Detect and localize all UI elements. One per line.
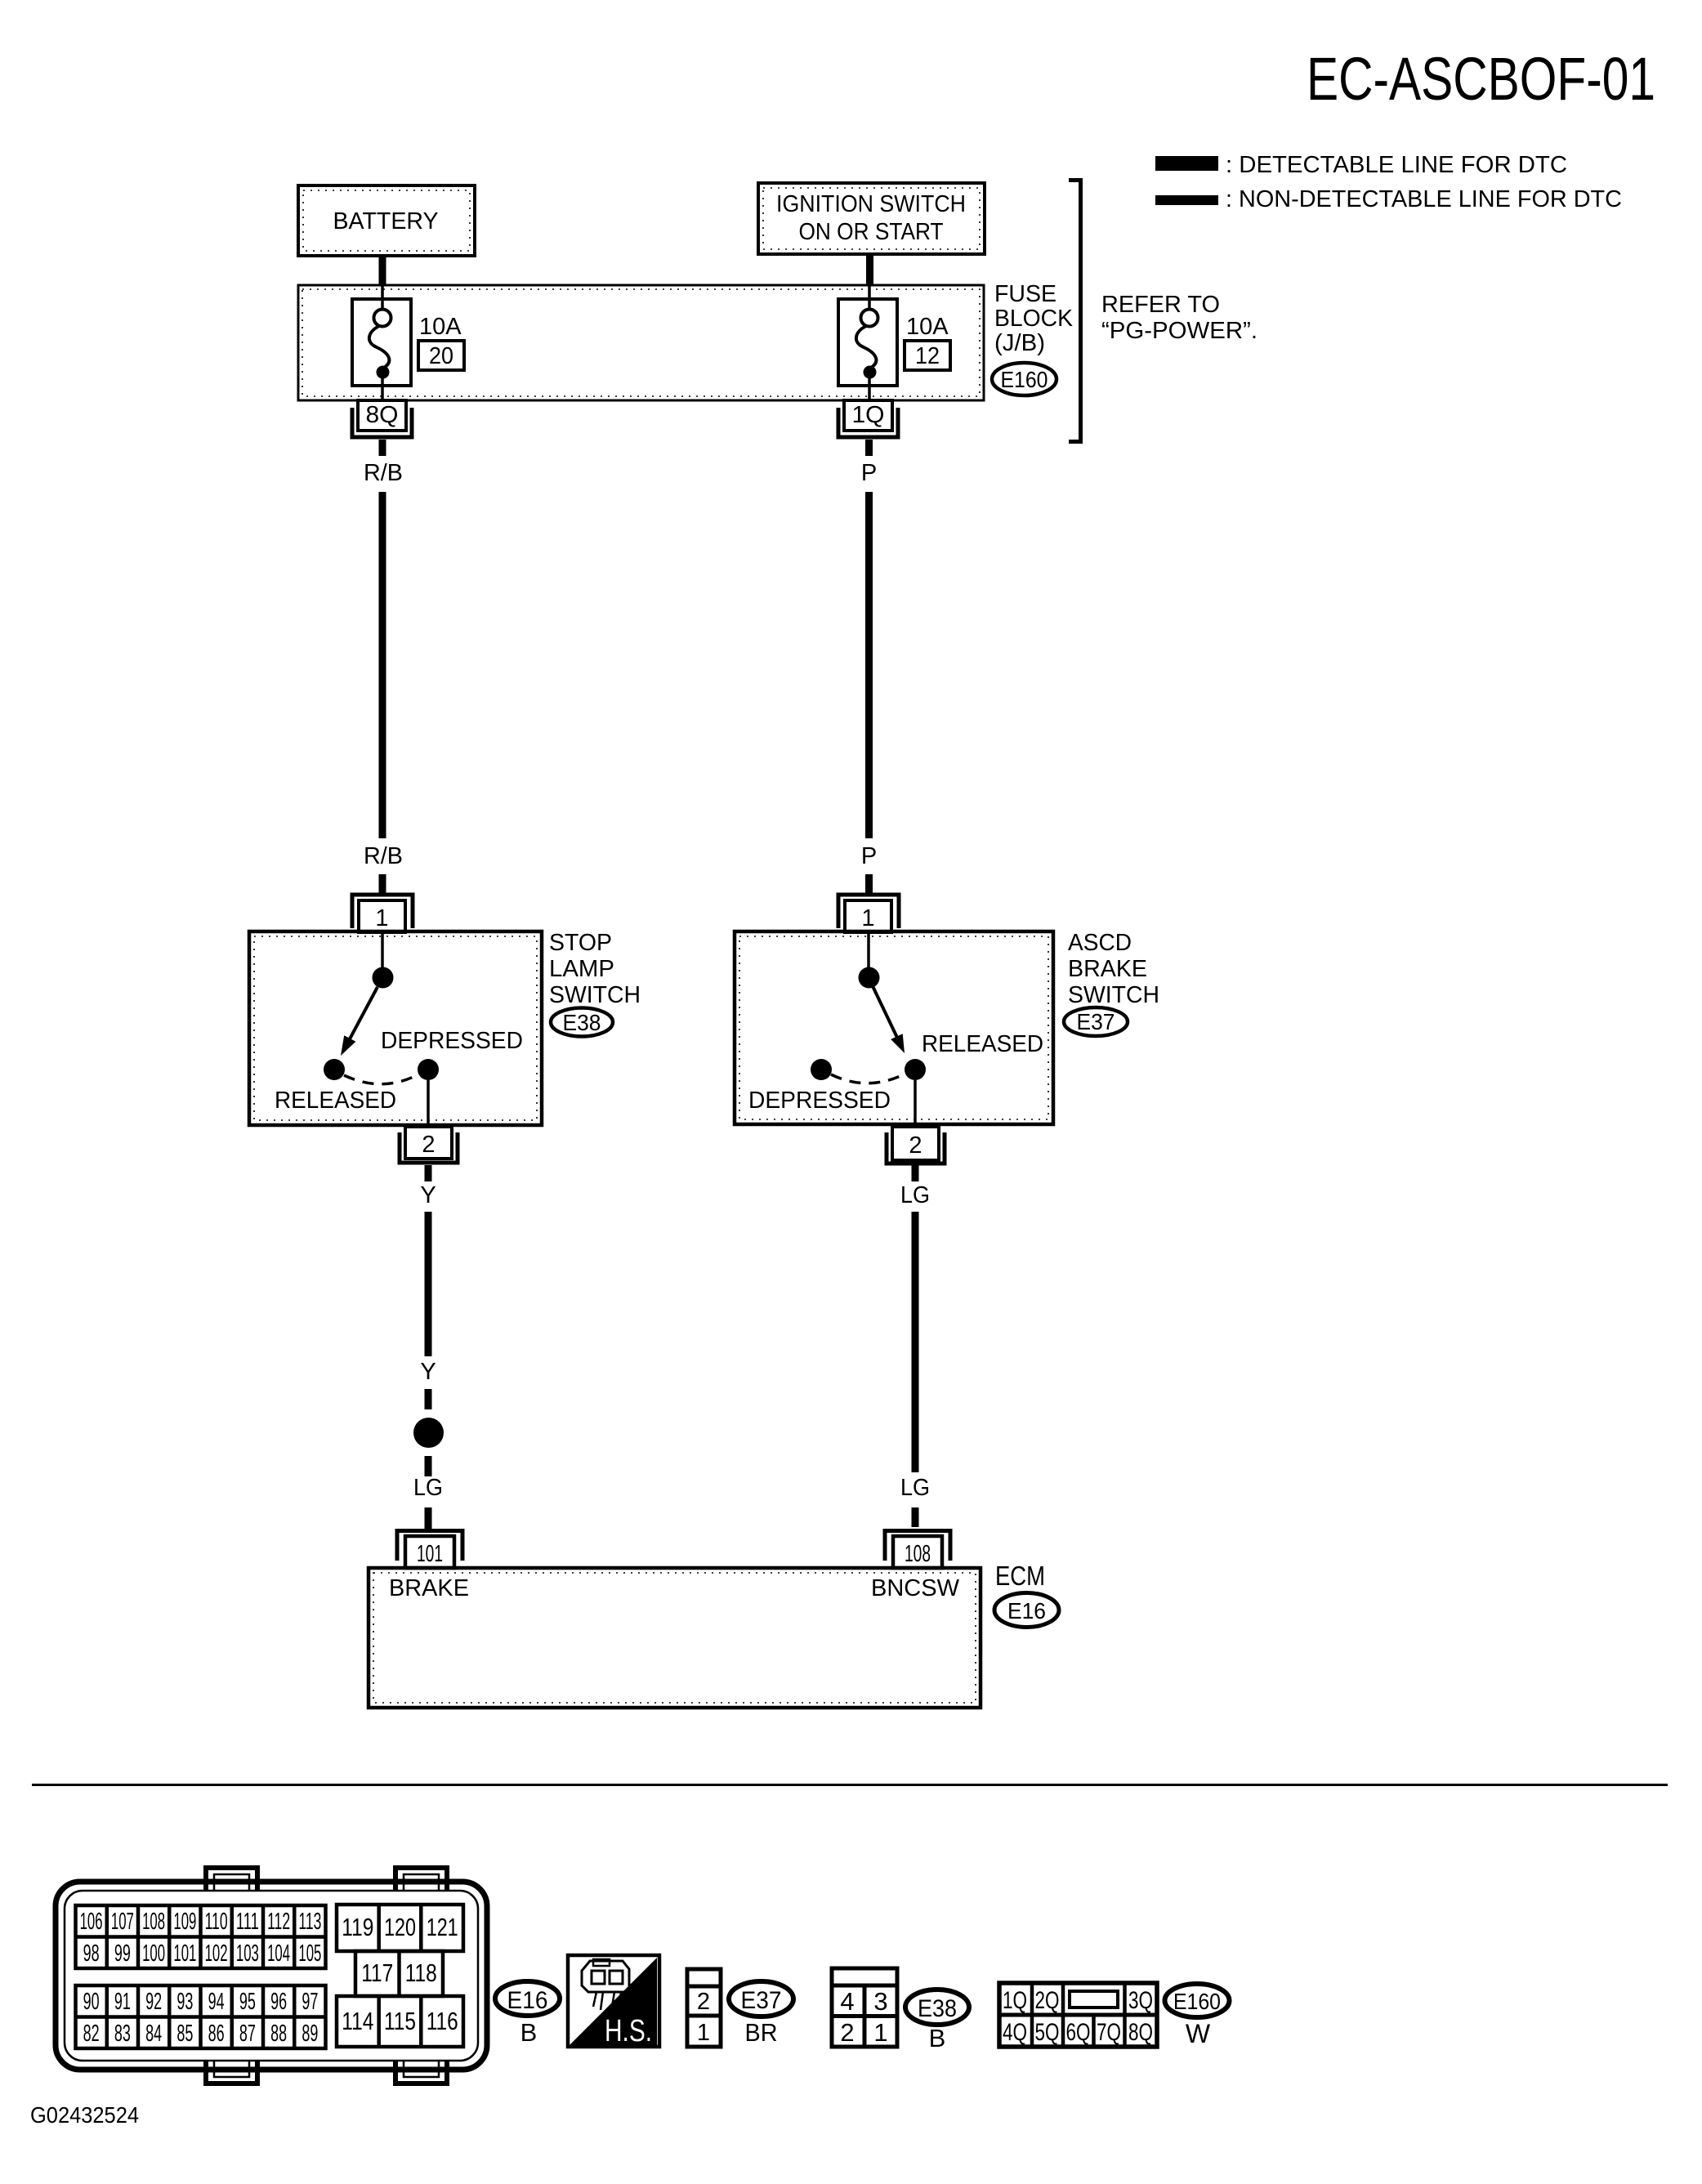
svg-text:STOP: STOP	[549, 930, 612, 956]
svg-text:92: 92	[145, 1989, 162, 2015]
svg-text:LAMP: LAMP	[549, 956, 614, 982]
svg-text:BR: BR	[745, 2018, 778, 2047]
svg-text:DEPRESSED: DEPRESSED	[748, 1088, 891, 1114]
svg-text:2Q: 2Q	[1035, 1987, 1060, 2014]
svg-text:115: 115	[384, 2007, 416, 2035]
svg-text:1: 1	[697, 2020, 710, 2046]
svg-text:DEPRESSED: DEPRESSED	[381, 1028, 523, 1054]
svg-text:101: 101	[417, 1541, 443, 1567]
ascd brake switch box E37	[735, 931, 1053, 1124]
connector ref E16 oval (ECM)	[994, 1593, 1059, 1628]
fuse F1 10A (battery side)	[352, 286, 464, 400]
svg-text:114: 114	[342, 2007, 373, 2035]
svg-text:1Q: 1Q	[852, 402, 885, 428]
svg-text:99: 99	[114, 1941, 131, 1967]
svg-text:W: W	[1186, 2019, 1211, 2048]
wire P stub to pin 1	[865, 874, 873, 893]
pin 2 ascd brake switch	[887, 1127, 945, 1181]
svg-text:ASCD: ASCD	[1068, 930, 1132, 956]
svg-text:RELEASED: RELEASED	[275, 1088, 396, 1114]
svg-text:BRAKE: BRAKE	[1068, 956, 1147, 982]
svg-text:3Q: 3Q	[1128, 1987, 1153, 2014]
svg-text:102: 102	[205, 1941, 228, 1967]
connector tab top-left	[206, 1868, 257, 1891]
pin grid right row 117-118	[355, 1951, 443, 1996]
svg-text:R/B: R/B	[364, 460, 403, 486]
stop lamp switch internals	[275, 933, 523, 1127]
refer to PG-POWER bracket	[1069, 181, 1081, 442]
connector ref E16 oval (bottom)	[495, 1981, 560, 2016]
svg-text:4Q: 4Q	[1003, 2019, 1027, 2046]
svg-text:H.S.: H.S.	[605, 2014, 652, 2048]
svg-text:E38: E38	[918, 1995, 957, 2022]
svg-text:4: 4	[840, 1987, 854, 2016]
svg-text:1Q: 1Q	[1003, 1987, 1027, 2014]
connector E38 view	[832, 1968, 897, 2047]
fuse block J/B box	[298, 285, 984, 400]
stop lamp switch label	[549, 930, 641, 1008]
connector 8Q	[352, 400, 412, 456]
connector E160 view	[999, 1983, 1157, 2047]
ECM connector E16 body	[56, 1882, 487, 2070]
svg-text:RELEASED: RELEASED	[922, 1031, 1043, 1057]
svg-text:2: 2	[697, 1989, 710, 2015]
pin 101 ECM	[397, 1531, 462, 1569]
svg-text:1: 1	[873, 2018, 887, 2047]
svg-text:BATTERY: BATTERY	[333, 208, 439, 234]
svg-text:8Q: 8Q	[1128, 2019, 1153, 2046]
svg-text:82: 82	[83, 2021, 100, 2047]
H.S. icon	[568, 1955, 659, 2048]
wire P vertical	[865, 492, 873, 838]
svg-text:20: 20	[429, 343, 453, 369]
svg-text:REFER TO: REFER TO	[1101, 292, 1220, 318]
svg-text:85: 85	[176, 2021, 193, 2047]
svg-text:121: 121	[427, 1913, 458, 1941]
svg-text:SWITCH: SWITCH	[549, 982, 641, 1008]
svg-text:95: 95	[239, 1989, 256, 2015]
svg-text:108: 108	[142, 1909, 165, 1935]
wire R/B stub to pin 1	[379, 874, 386, 893]
svg-text:LG: LG	[413, 1475, 443, 1501]
svg-text:111: 111	[236, 1909, 259, 1935]
svg-text:P: P	[861, 460, 877, 486]
legend non-detectable line symbol	[1155, 195, 1218, 205]
svg-text:8Q: 8Q	[366, 402, 399, 428]
connector E37 view	[687, 1969, 721, 2047]
junction node	[413, 1418, 444, 1448]
svg-text:LG: LG	[900, 1182, 930, 1208]
svg-text:EC-ASCBOF-01: EC-ASCBOF-01	[1307, 45, 1655, 113]
pin grid left lower rows 90-97 / 82-89	[76, 1985, 326, 2048]
wire battery to fuse block	[379, 254, 386, 286]
pin 2 stop lamp switch	[400, 1127, 458, 1181]
wire R/B vertical	[379, 492, 386, 838]
svg-text:5Q: 5Q	[1035, 2019, 1060, 2046]
svg-text:88: 88	[270, 2021, 287, 2047]
refer to PG-POWER text	[1101, 292, 1258, 344]
svg-text:12: 12	[915, 343, 940, 369]
svg-text:ON OR START: ON OR START	[799, 219, 944, 245]
svg-text:107: 107	[111, 1909, 134, 1935]
wire dashed segment above junction	[425, 1389, 432, 1409]
svg-text:104: 104	[267, 1941, 290, 1967]
svg-text:84: 84	[145, 2021, 162, 2047]
connector tab bottom-left	[206, 2061, 257, 2084]
wire ignition switch to fuse block	[866, 254, 873, 286]
svg-text:86: 86	[208, 2021, 225, 2047]
svg-text:87: 87	[239, 2021, 256, 2047]
svg-text:103: 103	[236, 1941, 259, 1967]
svg-text:116: 116	[427, 2007, 458, 2035]
svg-text:113: 113	[298, 1909, 321, 1935]
connector ref E160 oval (fuse block)	[992, 363, 1056, 395]
connector 1Q	[838, 400, 898, 456]
svg-text:117: 117	[361, 1958, 393, 1987]
svg-text:1: 1	[861, 905, 874, 931]
svg-text:3: 3	[873, 1987, 887, 2016]
svg-text:LG: LG	[900, 1475, 930, 1501]
svg-text:94: 94	[208, 1989, 225, 2015]
svg-text:2: 2	[909, 1132, 922, 1159]
svg-text:106: 106	[80, 1909, 103, 1935]
ECM box	[369, 1568, 981, 1708]
ascd brake switch label	[1068, 930, 1159, 1008]
pin 1 stop lamp switch	[352, 895, 413, 932]
svg-text:100: 100	[142, 1941, 165, 1967]
svg-text:“PG-POWER”.: “PG-POWER”.	[1101, 318, 1258, 344]
svg-text:E160: E160	[1001, 367, 1048, 392]
svg-text:B: B	[520, 2018, 538, 2047]
svg-text:E37: E37	[741, 1987, 782, 2014]
svg-text:E37: E37	[1077, 1009, 1115, 1034]
svg-text:Y: Y	[420, 1182, 436, 1208]
wire Y vertical	[425, 1212, 432, 1356]
svg-text:101: 101	[173, 1941, 196, 1967]
pin grid right row 119-121	[337, 1905, 463, 1951]
svg-text:E16: E16	[507, 1987, 548, 2014]
svg-text:BRAKE: BRAKE	[389, 1575, 469, 1601]
connector tab bottom-right	[395, 2061, 447, 2084]
svg-text:: NON-DETECTABLE LINE FOR DTC: : NON-DETECTABLE LINE FOR DTC	[1226, 186, 1622, 212]
connector ref E38 oval (stop lamp switch)	[551, 1008, 613, 1037]
battery box	[298, 185, 475, 256]
svg-text:ECM: ECM	[995, 1561, 1045, 1591]
svg-text:IGNITION SWITCH: IGNITION SWITCH	[776, 191, 966, 217]
svg-text:98: 98	[83, 1941, 100, 1967]
svg-text:FUSE: FUSE	[994, 281, 1056, 307]
wire dashed segment to pin 101	[425, 1507, 432, 1529]
separator line	[32, 1784, 1668, 1786]
svg-text:2: 2	[422, 1132, 435, 1158]
svg-text:109: 109	[173, 1909, 196, 1935]
svg-text:(J/B): (J/B)	[994, 330, 1045, 356]
connector ref E37 oval (ascd brake switch)	[1064, 1007, 1128, 1036]
svg-text:96: 96	[270, 1989, 287, 2015]
svg-text:6Q: 6Q	[1066, 2019, 1091, 2046]
wire LG vertical (right)	[912, 1212, 919, 1472]
svg-text:BLOCK: BLOCK	[994, 306, 1074, 332]
svg-text:SWITCH: SWITCH	[1068, 982, 1159, 1008]
ascd brake switch internals	[748, 933, 1043, 1127]
svg-text:: DETECTABLE LINE FOR DTC: : DETECTABLE LINE FOR DTC	[1226, 152, 1567, 178]
connector ref E38 oval (bottom)	[905, 1990, 969, 2025]
svg-text:E160: E160	[1173, 1989, 1221, 2014]
svg-text:G02432524: G02432524	[30, 2102, 139, 2128]
svg-text:E38: E38	[563, 1010, 601, 1035]
svg-text:B: B	[929, 2024, 946, 2052]
pin 1 ascd brake switch	[838, 895, 899, 932]
ignition switch box	[758, 183, 985, 254]
svg-text:E16: E16	[1007, 1598, 1046, 1623]
svg-text:120: 120	[384, 1913, 416, 1941]
fuse F2 10A (ignition side)	[838, 286, 950, 400]
svg-text:91: 91	[114, 1989, 131, 2015]
svg-text:1: 1	[375, 905, 388, 931]
connector ref E37 oval (bottom)	[729, 1981, 793, 2017]
svg-text:112: 112	[267, 1909, 290, 1935]
fuse block label	[994, 281, 1074, 356]
svg-text:90: 90	[83, 1989, 100, 2015]
svg-text:BNCSW: BNCSW	[871, 1575, 960, 1601]
connector tab top-right	[395, 1868, 447, 1891]
wire stub to pin 108	[912, 1507, 919, 1527]
svg-text:105: 105	[298, 1941, 321, 1967]
svg-text:10A: 10A	[419, 314, 462, 340]
svg-text:R/B: R/B	[364, 843, 403, 869]
svg-text:110: 110	[205, 1909, 228, 1935]
stop lamp switch box E38	[249, 931, 542, 1125]
svg-text:89: 89	[302, 2021, 318, 2047]
pin 108 ECM	[885, 1531, 950, 1569]
svg-text:119: 119	[342, 1913, 373, 1941]
wire dashed segment below junction	[425, 1456, 432, 1476]
connector ref E160 oval (bottom)	[1165, 1984, 1230, 2017]
svg-text:2: 2	[840, 2018, 854, 2047]
svg-text:10A: 10A	[906, 314, 949, 340]
pin grid right row 114-116	[337, 1996, 463, 2047]
pin grid left upper rows 106-113 / 98-105	[76, 1905, 326, 1968]
svg-text:P: P	[861, 843, 877, 869]
svg-text:97: 97	[302, 1989, 318, 2015]
svg-text:108: 108	[905, 1541, 931, 1567]
svg-text:7Q: 7Q	[1097, 2019, 1121, 2046]
svg-text:83: 83	[114, 2021, 131, 2047]
svg-text:118: 118	[405, 1958, 437, 1987]
svg-text:93: 93	[176, 1989, 193, 2015]
legend detectable line symbol	[1155, 156, 1218, 171]
svg-text:Y: Y	[420, 1359, 436, 1385]
